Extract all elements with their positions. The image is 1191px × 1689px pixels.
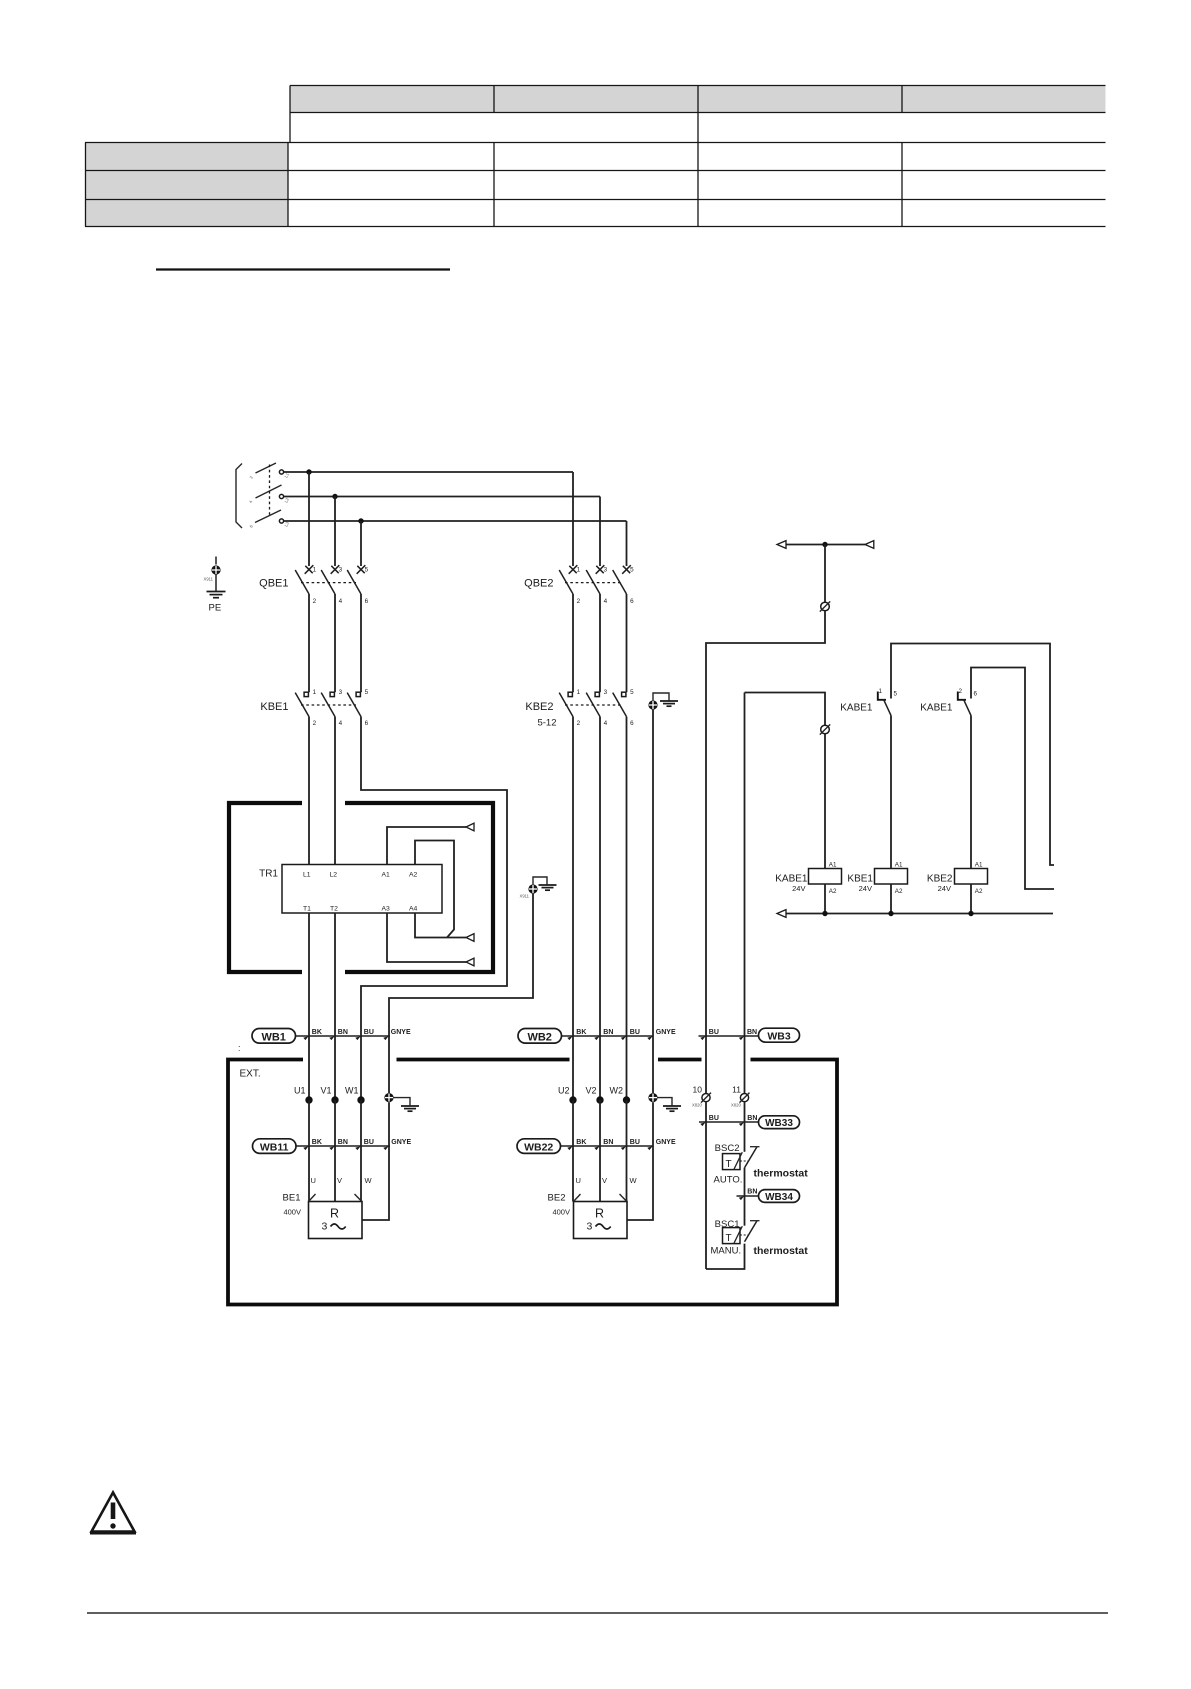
svg-text:400V: 400V [552,1208,570,1217]
PE terminal X911 [215,557,217,565]
EXT enclosure box [228,1060,837,1305]
svg-text:A2: A2 [975,888,983,895]
svg-text:V1: V1 [320,1086,331,1096]
svg-text:24V: 24V [792,884,805,893]
wire 10 down [705,1102,707,1269]
mains switch blade pole 1 [256,463,277,473]
cable line WB3 [699,1035,759,1037]
svg-text:X911: X911 [520,894,530,899]
svg-text:1: 1 [577,689,581,696]
svg-text:V2: V2 [585,1086,596,1096]
svg-text:L2: L2 [330,871,338,878]
contactor KBE1 [260,689,368,727]
svg-text:6: 6 [974,691,978,698]
svg-text:3: 3 [604,567,608,574]
arrow rail left [777,541,786,549]
wire phase L3 rail [284,520,627,522]
svg-text:BN: BN [338,1029,348,1036]
svg-text:PE: PE [209,603,222,614]
svg-text:6: 6 [365,720,369,727]
svg-text:1: 1 [313,689,317,696]
terminal W1 [357,1096,364,1103]
svg-text:KBE2: KBE2 [525,701,553,713]
wires TR1 T1 T2 down to WB1 [308,913,310,1097]
svg-text:BK: BK [312,1029,322,1036]
cable label WB33 [759,1116,800,1129]
arrow rail right [865,541,874,549]
TR1 shield enclosure box [229,803,493,972]
svg-text:EXT.: EXT. [240,1069,261,1080]
motor feed wires BE1 [308,1100,310,1202]
svg-text:3: 3 [604,689,608,696]
wire contact1 to coil KBE1 [890,716,892,869]
wire phase L1 rail [284,471,573,473]
mains switch terminal 1 [279,470,283,474]
svg-text:3: 3 [339,689,343,696]
svg-text:2: 2 [313,598,317,605]
svg-text:4: 4 [604,598,608,605]
wire BSC2 to BSC1 [744,1168,746,1226]
svg-text:WB3: WB3 [767,1031,790,1043]
junction rail [822,542,827,547]
svg-text:2: 2 [959,688,963,695]
svg-text:1: 1 [313,567,317,574]
wire TR1 A1 to arrow [387,827,466,865]
svg-text:W: W [365,1176,373,1185]
warning triangle [90,1493,136,1533]
svg-text:W: W [630,1176,638,1185]
mains switch terminal 3 [279,519,283,523]
svg-text:A1: A1 [829,861,837,868]
svg-text:U1: U1 [294,1086,306,1096]
svg-text:A3: A3 [382,906,391,913]
wire bottom return [706,1244,745,1269]
svg-text:KABE1: KABE1 [840,703,873,714]
PE terminal X911 mid [520,877,557,899]
svg-text:24V: 24V [938,884,951,893]
svg-text:TR1: TR1 [259,869,278,880]
svg-text:R: R [595,1207,604,1221]
PE earth wire [215,575,217,592]
svg-text:1: 1 [577,567,581,574]
coil return wires [824,884,826,914]
svg-text::: : [238,1043,241,1053]
wire drops to QBE1 [308,472,310,566]
svg-text:U2: U2 [558,1086,570,1096]
terminal U1 [305,1096,312,1103]
junction KABE1/bus [822,911,827,916]
wires KBE1 to TR1 L1 L2 [308,717,310,865]
coil KABE1 [809,869,842,885]
svg-text:1: 1 [879,688,883,695]
svg-text:BU: BU [630,1139,640,1146]
wire 11 down [744,1102,746,1152]
svg-text:T: T [726,1159,732,1170]
svg-text:BN: BN [747,1029,757,1036]
wire GNYE BE2 [627,1102,653,1220]
svg-text:A4: A4 [409,906,418,913]
mains switch terminal 2 [279,494,283,498]
arrow A1 [466,823,474,831]
svg-text:V: V [337,1176,342,1185]
arrow A3 [466,958,474,966]
svg-text:2: 2 [577,598,581,605]
svg-text:6: 6 [365,598,369,605]
svg-text:24V: 24V [859,884,872,893]
heading underline [156,268,450,270]
svg-text:A1: A1 [895,861,903,868]
junction KBE2/bus [968,911,973,916]
terminal 11 [740,1094,748,1102]
svg-text:V: V [602,1176,607,1185]
cable label WB1 [252,1029,296,1044]
control supply rail [786,544,865,546]
cable line WB33 [699,1121,759,1123]
terminal W2 [623,1096,630,1103]
wire GNYE BE1 [362,1102,389,1220]
svg-text:U: U [576,1176,581,1185]
wire TR1 A3 to arrow [387,913,466,962]
svg-text:10: 10 [693,1084,703,1094]
svg-text:QBE1: QBE1 [259,578,288,590]
svg-text:X911: X911 [204,577,214,582]
junction KBE1/bus [888,911,893,916]
svg-text:U: U [311,1176,316,1185]
junction L1/QBE1 [306,469,311,474]
footer rule [87,1612,1108,1614]
svg-text:3: 3 [587,1221,593,1233]
svg-text:MANU.: MANU. [711,1245,742,1256]
PE terminal BE1 [384,1093,419,1111]
svg-text:A2: A2 [895,888,903,895]
svg-text:BU: BU [630,1029,640,1036]
wire QBE2 to KBE2 [572,594,574,692]
svg-text:2: 2 [313,720,317,727]
cable line WB11 [296,1145,390,1147]
ground symbol PE [207,591,226,593]
wire GNYE from PE terminal down [652,710,654,1094]
wire TR1 A4 to arrow [415,913,466,938]
coil KBE1 [875,869,908,885]
svg-text:WB2: WB2 [527,1031,551,1043]
svg-text:BU: BU [364,1029,374,1036]
svg-text:BN: BN [338,1139,348,1146]
thermostat contact BSC1 [711,1219,760,1257]
cable label WB11 [253,1139,297,1154]
svg-text:3: 3 [339,567,343,574]
junction L2/QBE1 [332,494,337,499]
svg-text:BSC2: BSC2 [715,1143,740,1154]
svg-text:R: R [330,1207,339,1221]
wire GNYE WB1 from X911 [389,894,533,1093]
svg-text:BN: BN [747,1188,757,1195]
wire KABE1 contact2 loop [971,668,1054,890]
svg-text:T: T [726,1233,732,1244]
svg-text:BK: BK [576,1139,586,1146]
svg-text:5: 5 [630,689,634,696]
svg-text:thermostat: thermostat [754,1167,809,1179]
wire KBE1 pole5 detour around TR1 box [361,717,507,1097]
svg-text:A2: A2 [409,871,418,878]
svg-text:BSC1: BSC1 [715,1219,740,1230]
cable label WB3 [759,1028,800,1042]
wire to BU branch [706,611,825,1093]
svg-text:BU: BU [364,1139,374,1146]
terminal V1 [331,1096,338,1103]
svg-text:2: 2 [577,720,581,727]
arrow A4 [466,934,474,942]
table header gray row [290,86,1106,113]
svg-text:BK: BK [312,1139,322,1146]
svg-text:WB34: WB34 [765,1192,793,1203]
wire KABE1 contact1 loop [891,644,1054,866]
svg-text:BU: BU [709,1029,719,1036]
contactor KBE2 [525,689,634,729]
table left label column gray [86,143,289,227]
svg-text:4: 4 [339,598,343,605]
wire QBE1 to KBE1 [308,594,310,692]
svg-text:11: 11 [732,1084,741,1094]
svg-text:BN: BN [603,1029,613,1036]
terminal X1 [821,602,830,611]
svg-text:4: 4 [339,720,343,727]
cable line WB34 [737,1195,759,1197]
terminal X2 [821,725,830,734]
svg-text:GNYE: GNYE [656,1139,676,1146]
aux contact KABE1 no1 [840,688,897,716]
svg-text:X820: X820 [731,1103,741,1108]
svg-text:A1: A1 [382,871,391,878]
thermostat contact BSC2 [714,1143,760,1185]
svg-text:QBE2: QBE2 [524,578,553,590]
svg-text:AUTO.: AUTO. [714,1174,743,1185]
svg-text:GNYE: GNYE [391,1029,411,1036]
cable label WB2 [518,1029,562,1044]
wire BN down [744,693,746,1094]
table horizontal grid lines [290,85,1106,87]
svg-text:WB11: WB11 [260,1141,289,1153]
mains switch blade pole 3 [255,510,281,523]
table vertical grid lines [289,86,291,143]
control return bus [786,913,1053,915]
cable line WB2 [562,1035,654,1037]
svg-text:L1: L1 [303,871,311,878]
svg-text:4: 4 [604,720,608,727]
terminal U2 [569,1096,576,1103]
svg-text:GNYE: GNYE [656,1029,676,1036]
svg-text:GNYE: GNYE [391,1139,411,1146]
mains switch blade pole 2 [256,485,282,498]
cable label WB22 [517,1139,561,1154]
svg-text:KABE1: KABE1 [920,703,953,714]
junction L3/QBE1 [358,518,363,523]
svg-text:3: 3 [322,1221,328,1233]
terminal 10 [702,1094,710,1102]
svg-text:T2: T2 [330,906,338,913]
svg-text:T1: T1 [303,906,311,913]
svg-text:WB1: WB1 [261,1031,285,1043]
wire TR1 A2 [415,841,454,938]
svg-text:thermostat: thermostat [754,1245,809,1257]
svg-text:BE2: BE2 [548,1193,566,1204]
svg-text:400V: 400V [283,1208,301,1217]
coil KBE2 [955,869,988,885]
svg-text:BE1: BE1 [283,1193,301,1204]
mains switch linkage dashed [269,465,271,517]
motor BE1 [309,1202,363,1239]
cable label WB34 [759,1190,800,1203]
svg-text:5: 5 [365,567,369,574]
PE terminal BE2 [648,1093,681,1111]
svg-text:BN: BN [747,1115,757,1122]
svg-text:X820: X820 [692,1103,702,1108]
motor feed wires BE2 [572,1100,574,1202]
wire contact2 to coil KBE2 [970,716,972,869]
circuit breaker QBE1 [259,565,368,605]
wire phase L2 rail [284,496,600,498]
svg-text:5: 5 [365,689,369,696]
svg-text:5-12: 5-12 [537,718,556,729]
motor BE2 [574,1202,628,1239]
svg-text:W1: W1 [345,1086,359,1096]
mains disconnect switch bracket [236,464,242,529]
terminal V2 [596,1096,603,1103]
svg-text:5: 5 [894,691,898,698]
svg-text:BU: BU [709,1115,719,1122]
svg-text:6: 6 [630,598,634,605]
wire drops to QBE2 [572,472,574,566]
cable line WB22 [561,1145,654,1147]
svg-text:W2: W2 [610,1086,624,1096]
svg-text:6: 6 [630,720,634,727]
wire to coil KABE1 [824,734,826,869]
wires KBE2 down to WB2 [572,717,574,1097]
circuit breaker QBE2 [524,565,634,605]
svg-text:A1: A1 [975,861,983,868]
PE terminal near KBE2 [648,693,678,710]
svg-text:WB22: WB22 [524,1141,553,1153]
svg-text:5: 5 [630,567,634,574]
svg-text:KBE1: KBE1 [260,701,288,713]
arrow bus left [777,910,786,918]
svg-text:WB33: WB33 [765,1118,793,1129]
transformer TR1 [282,865,442,914]
cable line WB1 [296,1035,391,1037]
wire rail down [824,545,826,603]
svg-text:BN: BN [603,1139,613,1146]
svg-text:BK: BK [576,1029,586,1036]
svg-text:A2: A2 [829,888,837,895]
aux contact KABE1 no2 [920,688,977,716]
wire BN branch rail [745,693,826,726]
